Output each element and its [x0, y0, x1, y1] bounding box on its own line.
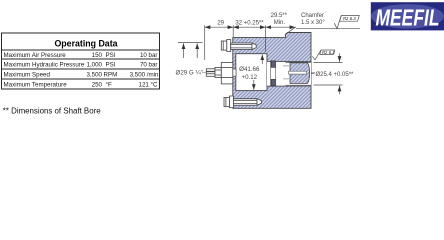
seal ring top — [271, 61, 276, 67]
top dimension line — [205, 26, 234, 28]
svg-text:Maximum Speed: Maximum Speed — [4, 72, 51, 79]
dia 25.4 dimension — [311, 54, 343, 95]
svg-text:PSI: PSI — [106, 62, 116, 69]
machine part body with stepped top and chamfer — [233, 33, 311, 109]
svg-text:RPM: RPM — [104, 72, 118, 79]
svg-text:10 bar: 10 bar — [140, 52, 158, 59]
top bolt — [221, 40, 256, 52]
svg-text:Ø25.4 +0.05**: Ø25.4 +0.05** — [316, 72, 355, 78]
G 1/4 fitting — [206, 63, 233, 84]
table row 1 — [4, 52, 160, 89]
port channel through wall — [232, 69, 236, 76]
chamfer witness (slanted) — [286, 27, 296, 34]
shaft bore band 25.4 — [267, 62, 311, 87]
surface finish symbol mid — [312, 50, 334, 60]
svg-text:Maximum Hydraulic Pressure: Maximum Hydraulic Pressure — [4, 62, 85, 69]
dia 41.66 dimension — [254, 55, 262, 90]
svg-text:Ø41.66: Ø41.66 — [239, 66, 260, 73]
svg-text:Operating Data: Operating Data — [54, 39, 117, 49]
svg-text:Maximum Temperature: Maximum Temperature — [4, 82, 68, 89]
svg-text:MEEFIL: MEEFIL — [376, 4, 440, 30]
svg-text:70 bar: 70 bar — [140, 62, 158, 69]
svg-text:Rz 6.3: Rz 6.3 — [322, 50, 335, 55]
svg-text:Maximum Air Pressure: Maximum Air Pressure — [4, 52, 67, 59]
svg-text:250: 250 — [92, 82, 103, 89]
bottom bolt — [224, 96, 261, 108]
seal ring bottom — [271, 79, 276, 85]
svg-text:32 +0.25**: 32 +0.25** — [235, 21, 264, 27]
seal groove walls — [269, 61, 271, 86]
svg-text:** Dimensions of Shaft Bore: ** Dimensions of Shaft Bore — [3, 107, 101, 116]
logo background — [371, 2, 444, 30]
svg-text:29.5**: 29.5** — [271, 13, 288, 19]
svg-text:1,000: 1,000 — [87, 62, 103, 69]
svg-text:121 °C: 121 °C — [139, 82, 159, 89]
surface finish symbol top — [334, 16, 359, 29]
svg-text:PSI: PSI — [106, 52, 116, 59]
table frame — [2, 33, 160, 89]
logo ellipse — [371, 4, 444, 28]
svg-text:°F: °F — [106, 82, 112, 89]
svg-text:3,500 /min: 3,500 /min — [130, 72, 159, 79]
svg-text:3,500: 3,500 — [87, 72, 103, 79]
svg-text:Min.: Min. — [274, 20, 286, 26]
dim texts top — [217, 13, 325, 27]
svg-text:150: 150 — [92, 52, 103, 59]
centerline — [202, 72, 317, 74]
svg-text:Rz 6.3: Rz 6.3 — [343, 16, 356, 21]
svg-text:29: 29 — [217, 21, 224, 27]
chamfer leader line — [296, 28, 360, 30]
extension lines — [204, 25, 206, 60]
cavity bore 41.66 — [236, 54, 267, 91]
dia 29 dimension — [178, 42, 215, 71]
svg-text:1.5 x 30°: 1.5 x 30° — [301, 20, 325, 26]
bore entry chamfer marks — [283, 65, 289, 67]
svg-text:Ø29 G ¼": Ø29 G ¼" — [176, 69, 203, 76]
rotor tip in bore — [289, 63, 310, 84]
svg-text:Chamfer: Chamfer — [301, 13, 324, 19]
svg-text:+0.12: +0.12 — [241, 74, 257, 81]
